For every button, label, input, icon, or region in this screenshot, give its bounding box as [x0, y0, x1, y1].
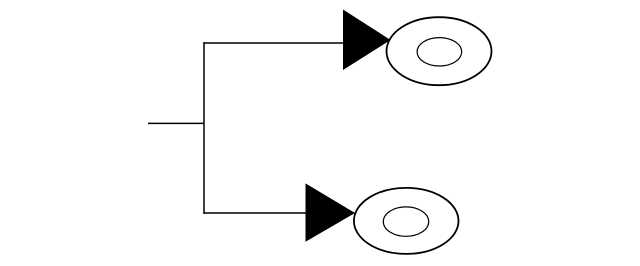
wire: bottom branch: [203, 212, 307, 214]
buffer/driver triangle (top): [343, 10, 391, 71]
indicator inner ellipse (bottom): [383, 207, 428, 236]
indicator outer ellipse (bottom): [354, 188, 459, 254]
buffer/driver triangle (bottom): [306, 183, 356, 241]
wire: vertical fan-out bus: [203, 42, 205, 213]
wire: top branch: [203, 42, 345, 44]
indicator inner ellipse (top): [417, 38, 462, 66]
wire: input lead: [148, 122, 204, 124]
indicator outer ellipse (top): [387, 17, 492, 85]
